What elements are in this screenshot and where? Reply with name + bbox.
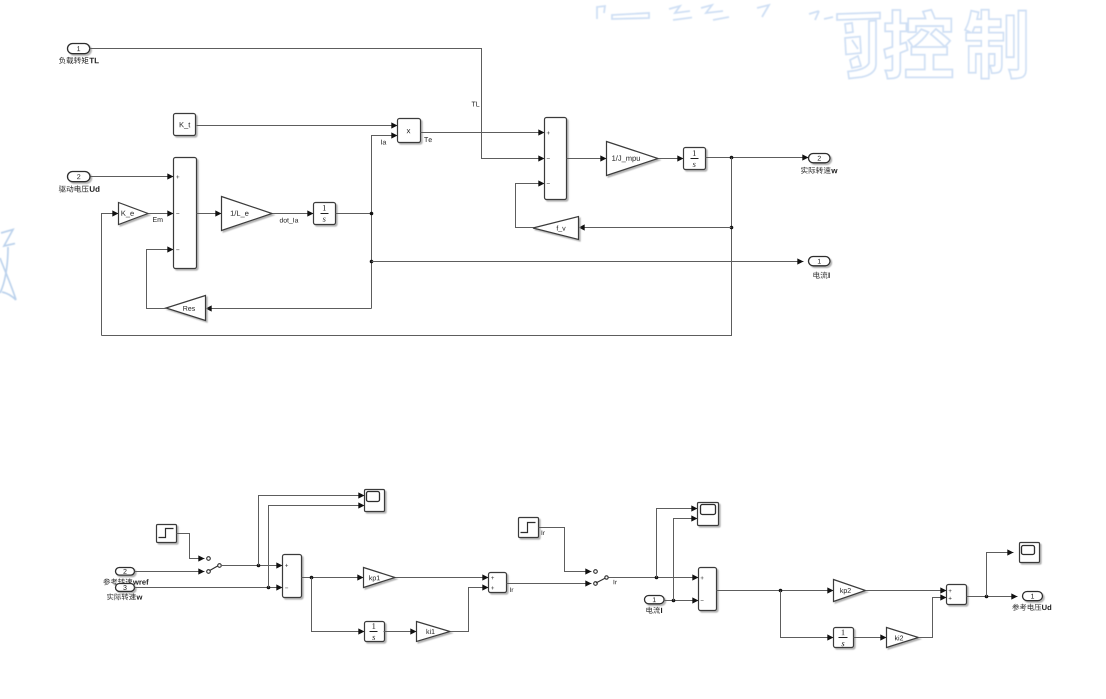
label 实际转速w bbox=[801, 167, 831, 174]
inport 1 (load torque) bbox=[68, 44, 90, 54]
label Ir (switch2) bbox=[614, 580, 617, 584]
wire speed w to outport2 bbox=[706, 157, 809, 159]
sum block Sum2 bbox=[545, 118, 567, 200]
watermark partial character (before 控) bbox=[837, 13, 880, 79]
switch1 lever bbox=[210, 566, 218, 571]
scope Scope3 bbox=[1020, 543, 1040, 563]
wire into f_v bbox=[579, 227, 732, 229]
outport 2 (actual speed w) bbox=[809, 154, 831, 163]
wire inport2 to sum1 + bbox=[91, 176, 174, 178]
node junction to scope1 a bbox=[257, 564, 261, 568]
label 电流I(bottom) bbox=[646, 607, 660, 614]
gain kp1 bbox=[364, 568, 396, 588]
node junction to scope2 a bbox=[655, 576, 659, 580]
wire Em: K_e to sum1 bbox=[149, 213, 174, 215]
wire sum6 to outport bbox=[967, 596, 1018, 598]
sum block Sum4 bbox=[489, 573, 507, 593]
step block Step1 bbox=[157, 525, 177, 543]
step block Step2 bbox=[519, 518, 539, 538]
wire to scope2 input1 bbox=[657, 509, 698, 578]
integrator 1/s (speed PI) bbox=[365, 622, 385, 642]
scope Scope2 bbox=[698, 503, 719, 526]
label 负载转矩TL bbox=[59, 57, 89, 64]
watermark left-edge partial character bbox=[0, 230, 16, 301]
wire into Res bbox=[206, 308, 372, 310]
gain K_e bbox=[119, 203, 149, 225]
integrator 1/s (armature current) bbox=[314, 203, 336, 225]
label Ia bbox=[381, 140, 386, 145]
wire inport2 to switch1 lower bbox=[135, 571, 205, 573]
switch2 lever bbox=[596, 578, 605, 583]
inport 2 (speed ref wref) bbox=[116, 568, 135, 576]
label 驱动电压Ud bbox=[59, 185, 89, 192]
wire Res out to sum1 bbox=[147, 250, 174, 309]
label Ir (sum4 out) bbox=[510, 588, 513, 592]
scope Scope1 bbox=[365, 490, 385, 512]
watermark 控制 bbox=[884, 10, 1026, 79]
product block x bbox=[398, 119, 421, 143]
label 电流I bbox=[813, 272, 827, 279]
wire inport3 to sum3 - bbox=[135, 587, 283, 589]
wire step1 to switch1 upper bbox=[177, 534, 205, 559]
wire kp2 to sum6 bbox=[866, 590, 947, 592]
switch1 upper contact bbox=[207, 557, 211, 561]
wire w feedback loop bbox=[102, 158, 732, 336]
label 参考转速wref bbox=[103, 578, 132, 585]
wire ki1 to sum4 bbox=[451, 588, 489, 632]
node sum6 out junction bbox=[985, 595, 989, 599]
gain 1/L_e bbox=[222, 197, 273, 231]
wire current I to outport1 bbox=[372, 261, 804, 263]
wire sum5 out to kp2 bbox=[717, 590, 834, 592]
integrator 1/s (current PI) bbox=[834, 628, 854, 648]
wire sum2 to gain 1/J_mpu bbox=[567, 158, 607, 160]
label Ir (step2) bbox=[542, 531, 545, 535]
sum block Sum5 bbox=[699, 568, 717, 611]
wire f_v out to sum2 bbox=[516, 184, 545, 228]
switch2 lower contact bbox=[594, 582, 598, 586]
label Te bbox=[424, 137, 432, 142]
node sum5 out junction bbox=[779, 589, 783, 593]
wire Ia riser bbox=[372, 136, 398, 309]
wire dot_Ia: 1/L_e to integrator bbox=[273, 213, 314, 215]
gain Res bbox=[166, 296, 206, 321]
wire branch to integrator4 bbox=[781, 591, 834, 638]
label 参考电压Ud bbox=[1012, 604, 1041, 611]
wire switch1 to sum3 + bbox=[221, 565, 283, 567]
gain ki2 bbox=[887, 628, 919, 648]
node Ia junction (integrator out) bbox=[370, 212, 374, 216]
wire integrator3 to ki1 bbox=[384, 631, 417, 633]
inport 1 (current I) bbox=[645, 596, 665, 604]
sum block Sum1 bbox=[174, 158, 197, 269]
node w junction bbox=[730, 156, 734, 160]
label TL bbox=[472, 102, 480, 107]
integrator 1/s (speed) bbox=[684, 148, 706, 170]
sum block Sum3 bbox=[283, 555, 302, 598]
node f_v junction bbox=[730, 226, 734, 230]
wire to scope3 bbox=[987, 553, 1014, 597]
gain f_v bbox=[533, 217, 579, 240]
gain 1/J_mpu bbox=[607, 142, 659, 176]
wire w-feedback into K_e bbox=[102, 214, 119, 336]
node sum3 out junction bbox=[310, 576, 314, 580]
gain K_t bbox=[174, 114, 196, 136]
wire 1/J_mpu to integrator2 bbox=[659, 158, 684, 160]
wire to scope1 input1 bbox=[259, 496, 365, 566]
gain ki1 bbox=[417, 622, 451, 642]
switch2 upper contact bbox=[594, 570, 598, 574]
label dot_Ia bbox=[280, 218, 299, 224]
gain kp2 bbox=[834, 580, 866, 602]
wire TL: inport1 to sum2 bbox=[90, 49, 545, 159]
wire Te: product to sum2 + bbox=[421, 132, 545, 134]
wire integrator4 to ki2 bbox=[854, 637, 887, 639]
node current-line junction bbox=[370, 260, 374, 264]
wire step2 to switch2 upper bbox=[539, 528, 592, 572]
wire sum3 out to kp1 bbox=[302, 577, 364, 579]
wire branch to integrator3 bbox=[312, 578, 365, 632]
node junction to scope2 b bbox=[672, 599, 676, 603]
wire integrator out to Ia node bbox=[336, 213, 372, 215]
label Em bbox=[153, 217, 162, 222]
wire kp1 to sum4 bbox=[396, 577, 489, 579]
wire inport1 to sum5 - bbox=[664, 600, 699, 602]
wire to scope1 input2 bbox=[269, 506, 365, 588]
inport 3 (actual speed w) bbox=[116, 584, 135, 592]
inport 2 (drive voltage) bbox=[68, 172, 91, 182]
sum block Sum6 bbox=[947, 585, 967, 605]
wire K_t to product bbox=[197, 125, 398, 127]
outport 1 (current I) bbox=[809, 257, 831, 266]
wire sum4 to switch2 lower bbox=[507, 583, 592, 585]
node junction to scope1 b bbox=[267, 586, 271, 590]
label 实际转速w(bottom) bbox=[107, 593, 136, 600]
wire sum1 to gain 1/L_e bbox=[197, 213, 222, 215]
wire ki2 to sum6 bbox=[919, 598, 947, 638]
switch1 lower contact bbox=[207, 570, 211, 574]
wire switch2 to sum5 + bbox=[609, 577, 699, 579]
outport 1 (ref voltage Ud) bbox=[1023, 592, 1043, 601]
wire to scope2 input2 bbox=[674, 519, 698, 601]
watermark top stroke tips bbox=[597, 5, 833, 20]
